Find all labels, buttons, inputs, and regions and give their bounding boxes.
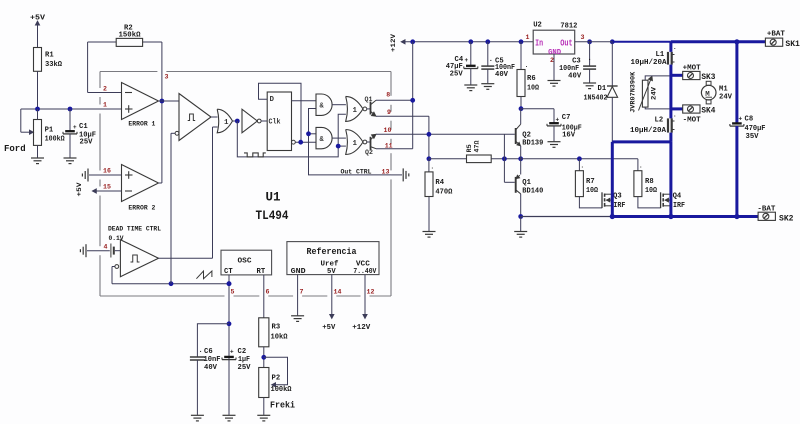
svg-text:10Ω: 10Ω — [645, 187, 658, 195]
svg-text:R3: R3 — [272, 324, 281, 332]
svg-text:P2: P2 — [272, 375, 281, 383]
svg-text:L2: L2 — [655, 117, 664, 125]
svg-text:1µF: 1µF — [238, 356, 250, 364]
svg-text:+: + — [556, 116, 560, 123]
svg-text:+12V: +12V — [390, 33, 398, 52]
svg-text:25V: 25V — [238, 364, 252, 372]
svg-text:+12V: +12V — [352, 324, 371, 332]
svg-text:·: · — [525, 63, 529, 70]
svg-text:·: · — [489, 57, 493, 65]
svg-text:In: In — [535, 38, 543, 48]
svg-text:7: 7 — [300, 289, 304, 296]
svg-text:+: + — [465, 57, 469, 64]
svg-text:·: · — [673, 46, 677, 53]
svg-text:+5V: +5V — [76, 181, 84, 196]
svg-text:14: 14 — [334, 289, 342, 296]
svg-text:Q3: Q3 — [613, 193, 622, 201]
svg-text:2: 2 — [103, 86, 107, 93]
svg-text:Out CTRL: Out CTRL — [341, 168, 372, 175]
svg-text:24V: 24V — [651, 86, 659, 100]
svg-text:1: 1 — [224, 119, 229, 127]
svg-text:R1: R1 — [45, 52, 54, 60]
svg-text:9: 9 — [387, 109, 391, 116]
svg-text:12: 12 — [367, 289, 375, 296]
svg-text:3: 3 — [581, 34, 585, 41]
svg-text:R6: R6 — [527, 75, 536, 83]
svg-text:ERROR 2: ERROR 2 — [128, 205, 155, 213]
svg-text:+5V: +5V — [322, 324, 336, 332]
svg-text:4: 4 — [104, 243, 108, 250]
svg-text:C6: C6 — [204, 348, 213, 356]
svg-text:1: 1 — [353, 107, 358, 115]
svg-text:7812: 7812 — [560, 23, 577, 31]
svg-text:470Ω: 470Ω — [435, 189, 453, 197]
svg-text:100kΩ: 100kΩ — [271, 386, 293, 394]
svg-text:33kΩ: 33kΩ — [45, 61, 63, 69]
svg-text:SK4: SK4 — [701, 106, 715, 115]
svg-text:SK3: SK3 — [701, 73, 715, 82]
svg-text:10Ω: 10Ω — [527, 85, 540, 93]
svg-text:ERROR 1: ERROR 1 — [128, 121, 155, 129]
svg-text:10: 10 — [384, 127, 392, 134]
svg-text:·: · — [199, 348, 203, 356]
svg-text:16: 16 — [103, 168, 111, 175]
svg-text:1: 1 — [353, 140, 358, 148]
svg-text:D1: D1 — [598, 85, 607, 93]
svg-text:10kΩ: 10kΩ — [271, 334, 289, 342]
svg-text:-MOT: -MOT — [683, 116, 702, 124]
svg-text:+: + — [739, 116, 743, 123]
svg-text:40V: 40V — [495, 71, 509, 79]
svg-text:DEAD TIME CTRL: DEAD TIME CTRL — [108, 226, 161, 233]
svg-text:Ford: Ford — [4, 144, 26, 154]
svg-text:Clk: Clk — [269, 119, 281, 127]
svg-text:C7: C7 — [562, 114, 571, 122]
svg-text:C2: C2 — [238, 348, 247, 356]
svg-text:+: + — [230, 348, 234, 355]
svg-text:+MOT: +MOT — [683, 65, 702, 73]
svg-text:8: 8 — [386, 91, 390, 98]
svg-text:L1: L1 — [656, 51, 665, 59]
svg-text:P1: P1 — [45, 127, 54, 135]
svg-text:10Ω: 10Ω — [586, 187, 599, 195]
svg-text:Q4: Q4 — [673, 193, 682, 201]
svg-text:25V: 25V — [80, 139, 94, 147]
svg-text:TL494: TL494 — [256, 209, 289, 223]
svg-text:3: 3 — [165, 74, 169, 81]
svg-text:D: D — [270, 96, 275, 104]
svg-text:2: 2 — [550, 57, 554, 64]
svg-text:R7: R7 — [586, 178, 595, 186]
svg-text:Q1: Q1 — [365, 96, 373, 103]
svg-text:-BAT: -BAT — [757, 206, 776, 214]
svg-text:10nF: 10nF — [204, 356, 221, 364]
svg-text:BD140: BD140 — [522, 188, 543, 196]
svg-text:·: · — [673, 113, 677, 120]
svg-text:1: 1 — [526, 34, 530, 41]
svg-text:·: · — [581, 164, 585, 171]
svg-text:1: 1 — [103, 102, 107, 109]
svg-text:40V: 40V — [204, 364, 218, 372]
svg-text:+: + — [73, 124, 77, 131]
svg-text:CT: CT — [224, 268, 233, 276]
svg-text:5: 5 — [231, 289, 235, 296]
svg-text:15: 15 — [103, 184, 111, 191]
svg-text:+BAT: +BAT — [767, 31, 786, 39]
svg-text:C8: C8 — [745, 116, 754, 124]
svg-text:10µH/20A: 10µH/20A — [631, 59, 668, 67]
svg-text:OSC: OSC — [238, 258, 253, 266]
svg-text:R4: R4 — [435, 179, 444, 187]
svg-text:JVR07N390K: JVR07N390K — [630, 71, 638, 113]
svg-text:Out: Out — [560, 38, 573, 48]
svg-text:Freki: Freki — [270, 401, 296, 411]
svg-text:·: · — [431, 165, 435, 172]
svg-text:U2: U2 — [533, 22, 542, 30]
svg-text:35V: 35V — [746, 133, 760, 141]
svg-text:0.1V: 0.1V — [109, 235, 124, 242]
svg-text:SK2: SK2 — [779, 214, 794, 224]
svg-text:U1: U1 — [266, 191, 281, 205]
svg-text:Q1: Q1 — [522, 179, 531, 187]
svg-text:IRF: IRF — [613, 202, 625, 210]
svg-text:IRF: IRF — [673, 202, 685, 210]
svg-text:·: · — [639, 164, 643, 171]
svg-text:40V: 40V — [568, 73, 582, 81]
svg-text:6: 6 — [266, 289, 270, 296]
svg-text:25V: 25V — [450, 71, 464, 79]
svg-text:10µH/20A: 10µH/20A — [630, 127, 667, 135]
svg-text:Q2: Q2 — [365, 149, 373, 156]
svg-text:RT: RT — [257, 268, 266, 276]
svg-text:C1: C1 — [79, 123, 88, 131]
svg-text:Referencia: Referencia — [307, 247, 358, 257]
svg-text:BD139: BD139 — [522, 140, 543, 148]
svg-text:47Ω: 47Ω — [474, 141, 482, 153]
svg-text:M1: M1 — [719, 86, 728, 94]
svg-text:1N5402: 1N5402 — [584, 95, 608, 103]
svg-text:GND: GND — [548, 49, 561, 57]
svg-text:150kΩ: 150kΩ — [119, 32, 142, 40]
svg-text:100kΩ: 100kΩ — [45, 136, 66, 144]
svg-text:24V: 24V — [719, 94, 733, 102]
svg-text:GND: GND — [291, 268, 307, 276]
svg-text:Q2: Q2 — [522, 132, 531, 140]
svg-text:·: · — [588, 57, 592, 65]
svg-text:470µF: 470µF — [745, 125, 766, 133]
svg-text:16V: 16V — [562, 132, 576, 140]
svg-text:R8: R8 — [645, 178, 654, 186]
svg-text:SK1: SK1 — [785, 39, 800, 49]
